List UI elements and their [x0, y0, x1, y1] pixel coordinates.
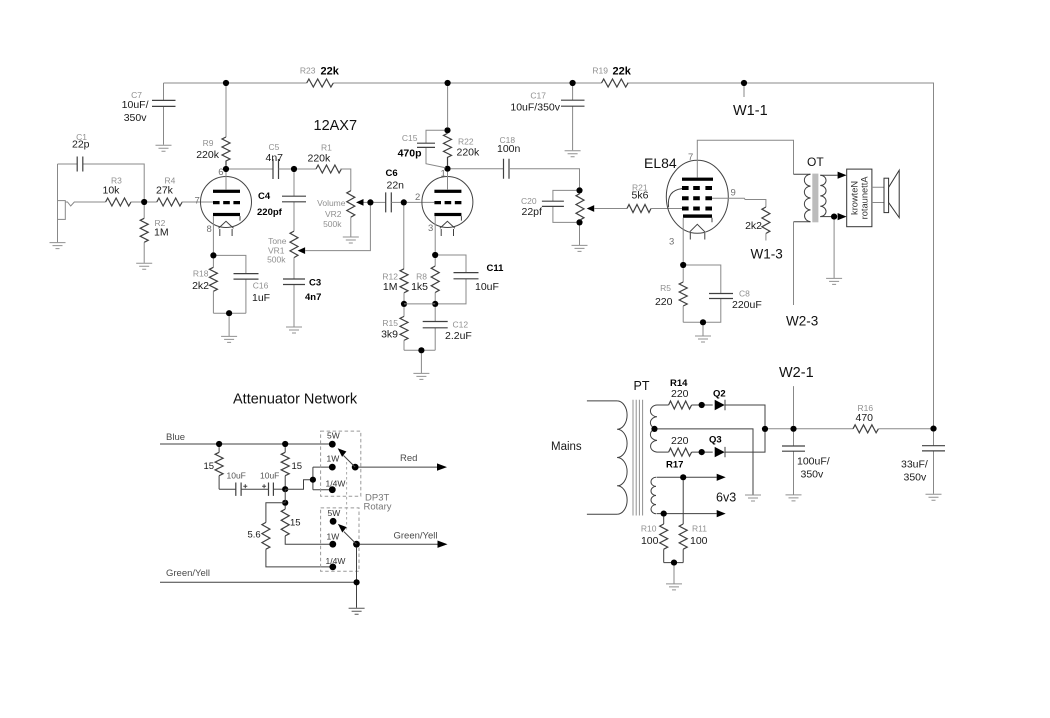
ground C7	[156, 145, 172, 151]
svg-text:220: 220	[671, 388, 689, 400]
ground C20	[572, 245, 588, 251]
capacitor C4 220pf	[257, 172, 306, 231]
resistor R19 22k	[592, 66, 631, 88]
ground heater	[666, 584, 682, 590]
svg-text:6v3: 6v3	[716, 491, 736, 505]
node 1 anode V1b	[444, 166, 450, 172]
transformer PT HT winding	[650, 405, 657, 452]
wire rail to R22	[447, 86, 449, 127]
resistor R9 220k	[196, 86, 230, 166]
svg-text:22n: 22n	[387, 180, 405, 192]
capacitor C5 4n7	[229, 142, 291, 179]
svg-text:10k: 10k	[103, 185, 121, 197]
resistor R3 10k	[103, 176, 142, 207]
svg-text:2k2: 2k2	[745, 220, 762, 232]
svg-text:W1-3: W1-3	[751, 247, 783, 262]
transformer PT core	[633, 400, 643, 516]
wire GreenYell bottom line	[160, 547, 357, 608]
svg-text:100uF/: 100uF/	[797, 456, 830, 468]
node ground V1b bus	[418, 347, 424, 353]
svg-text:rotaunettA: rotaunettA	[859, 176, 869, 220]
potentiometer VR2 Volume 500k	[317, 191, 367, 237]
ground C17	[565, 151, 581, 157]
wire cathode bus V1b	[404, 303, 435, 305]
node R22-C15 top	[444, 127, 450, 133]
node blue-R15b	[282, 441, 288, 447]
link rotary dashed	[346, 462, 348, 530]
svg-text:220pf: 220pf	[257, 207, 283, 218]
wire to ground	[673, 566, 675, 584]
wire heater top	[657, 476, 717, 478]
svg-text:PT: PT	[634, 379, 650, 393]
node OT secondary bottom	[831, 214, 837, 220]
node R8-C12	[432, 301, 438, 307]
node 100uF	[790, 426, 796, 432]
node cathode V2	[680, 262, 686, 268]
ground V1b cathode	[413, 373, 429, 379]
wire pin 9 to 2k2	[712, 198, 766, 207]
svg-text:470: 470	[856, 412, 874, 424]
svg-text:5W: 5W	[327, 431, 340, 441]
svg-text:C20: C20	[521, 196, 537, 206]
svg-text:R12: R12	[382, 272, 398, 282]
svg-text:Green/Yell: Green/Yell	[394, 531, 438, 542]
capacitor C15 470p	[398, 130, 446, 167]
ground R5-C8	[695, 336, 711, 342]
wire Red output	[358, 466, 437, 468]
capacitor C12 2.2uF	[423, 307, 472, 350]
svg-text:1M: 1M	[383, 281, 398, 293]
switch SW1 wiper	[338, 448, 356, 467]
ground 33uF	[926, 494, 942, 500]
svg-text:7: 7	[195, 196, 200, 207]
node cap junction	[282, 486, 288, 492]
capacitor 10uF second	[260, 471, 285, 496]
ground jack	[50, 243, 66, 249]
resistor R4 27k	[147, 176, 214, 207]
svg-text:8: 8	[207, 224, 212, 235]
resistor 15 first	[204, 447, 224, 489]
wire W1-1 stub	[743, 86, 745, 97]
node rail-C17	[570, 80, 576, 86]
svg-text:33uF/: 33uF/	[901, 459, 928, 471]
tube V2 heater	[690, 224, 705, 239]
svg-text:4n7: 4n7	[266, 152, 284, 164]
node ground R5-C8	[700, 319, 706, 325]
svg-text:22pf: 22pf	[522, 206, 543, 218]
svg-text:Rotary: Rotary	[364, 502, 392, 513]
resistor R21 5k6	[594, 183, 682, 213]
resistor R15 3k9	[381, 307, 408, 350]
svg-text:4n7: 4n7	[305, 292, 321, 303]
svg-text:R11: R11	[692, 524, 707, 534]
svg-text:R9: R9	[203, 138, 214, 148]
ground attenuator	[349, 608, 365, 614]
input jack J1	[58, 164, 106, 242]
wire caps to switch1	[285, 467, 329, 490]
svg-text:470p: 470p	[398, 148, 422, 160]
svg-text:10uF: 10uF	[475, 281, 499, 293]
svg-text:22p: 22p	[72, 139, 90, 151]
node C20 bottom	[576, 219, 582, 225]
tube V1a grid	[213, 201, 240, 204]
resistor R12 1M	[382, 206, 408, 304]
svg-text:Q2: Q2	[713, 389, 726, 400]
resistor 15 second	[281, 447, 302, 489]
tube V1b grid	[434, 201, 461, 204]
resistor R2 1M	[140, 205, 168, 263]
node heater bottom	[661, 510, 667, 516]
resistor R-220 lower	[657, 435, 713, 456]
svg-text:15: 15	[292, 461, 303, 472]
resistor R8 1k5	[411, 258, 439, 301]
node switch1 T	[310, 477, 316, 483]
svg-text:C12: C12	[453, 320, 469, 330]
svg-text:15: 15	[290, 518, 301, 529]
resistor R14 220	[657, 378, 713, 409]
wire V1b anode to node 1	[447, 172, 449, 190]
svg-text:22k: 22k	[321, 66, 340, 78]
ground R18-C16	[221, 336, 237, 342]
svg-text:R15: R15	[382, 318, 398, 328]
node C5-R1-C4	[291, 166, 297, 172]
svg-text:1k5: 1k5	[411, 281, 428, 293]
node B+ rectifier	[762, 426, 768, 432]
wire cap junction down	[284, 489, 286, 503]
svg-text:350v: 350v	[124, 112, 148, 124]
wire to ground	[420, 353, 422, 373]
node cathode V1b	[432, 252, 438, 258]
wire arrow top lead	[837, 174, 838, 176]
wire to ground	[702, 325, 704, 335]
resistor 5.6	[248, 503, 330, 567]
svg-text:3: 3	[669, 237, 674, 248]
switch SW1 quarterW terminal	[329, 486, 336, 493]
svg-text:R22: R22	[458, 137, 474, 147]
svg-text:Blue: Blue	[166, 432, 185, 443]
wire OT secondary ground stem	[833, 220, 835, 278]
wire bottom bus	[404, 349, 435, 351]
svg-text:7: 7	[688, 152, 693, 163]
tube V1b cathode	[434, 213, 461, 221]
wire V1a cathode down	[212, 216, 214, 252]
capacitor C6 22n	[374, 168, 405, 212]
svg-text:C5: C5	[269, 142, 280, 152]
capacitor C16 1uF	[213, 255, 270, 313]
node C20 top	[576, 187, 582, 193]
wire V2 cathode down	[682, 218, 684, 262]
node rail-R22	[445, 80, 451, 86]
tube V1a cathode	[213, 213, 240, 221]
node ground R18-C16	[226, 310, 232, 316]
node 5.6 junction	[282, 500, 288, 506]
diode Q2	[713, 389, 765, 426]
switch SW2 1W terminal	[329, 541, 336, 548]
wire W2-1 stub	[793, 386, 795, 426]
ground VR2	[343, 237, 359, 243]
resistor R22 220k	[444, 133, 481, 165]
svg-text:C17: C17	[530, 91, 546, 101]
capacitor 33uF/350v	[901, 432, 945, 494]
svg-text:22k: 22k	[613, 66, 632, 78]
tube V2 EL84 envelope	[666, 160, 728, 233]
svg-text:220k: 220k	[457, 147, 481, 159]
wire GreenYell output	[360, 543, 438, 545]
svg-text:EL84: EL84	[644, 155, 677, 171]
svg-text:OT: OT	[807, 155, 824, 169]
node grid V1a input	[141, 199, 147, 205]
potentiometer VR1 Tone 500k	[267, 206, 370, 265]
svg-text:5k6: 5k6	[632, 190, 649, 202]
svg-text:Mains: Mains	[551, 441, 582, 453]
capacitor C17	[510, 86, 584, 150]
node rail-R9	[223, 80, 229, 86]
switch SW2 wiper	[338, 524, 357, 544]
svg-text:R19: R19	[592, 66, 608, 76]
diode Q3	[709, 432, 765, 457]
node W1-1	[741, 80, 747, 86]
svg-text:R10: R10	[641, 524, 657, 534]
svg-text:krowteN: krowteN	[849, 181, 859, 215]
resistor R11 100	[679, 480, 707, 562]
switch SW1 pole	[352, 464, 359, 471]
svg-text:1/4W: 1/4W	[326, 556, 346, 566]
capacitor C3 4n7	[283, 258, 321, 327]
svg-text:C4: C4	[258, 191, 271, 202]
wire grid V1b	[407, 201, 434, 203]
svg-text:100n: 100n	[497, 143, 521, 155]
wire heater resistors bus	[664, 562, 684, 564]
wire W2-3	[793, 222, 795, 305]
node grid V1b	[401, 199, 407, 205]
svg-text:100: 100	[690, 535, 708, 547]
svg-text:Red: Red	[400, 453, 417, 464]
svg-text:5W: 5W	[328, 508, 341, 518]
svg-text:1W: 1W	[327, 454, 340, 464]
svg-text:C8: C8	[739, 289, 750, 299]
tube V2 grid hook	[668, 189, 682, 208]
wire heater bottom	[657, 513, 717, 515]
svg-text:10uF: 10uF	[260, 471, 279, 481]
tube V1a anode	[213, 190, 240, 193]
capacitor C7	[122, 83, 176, 145]
node 6	[223, 166, 229, 172]
svg-text:R5: R5	[660, 283, 671, 293]
capacitor C8 220uF	[683, 265, 762, 322]
svg-text:Volume: Volume	[317, 198, 346, 208]
svg-text:W2-1: W2-1	[779, 365, 814, 381]
svg-text:C6: C6	[386, 168, 398, 179]
svg-text:C11: C11	[487, 263, 505, 274]
svg-text:12AX7: 12AX7	[314, 118, 358, 134]
transformer OT core	[812, 174, 818, 223]
transformer OT secondary	[820, 175, 836, 216]
ground OT secondary	[826, 278, 842, 284]
svg-text:3k9: 3k9	[381, 329, 398, 341]
arrow OT secondary top	[838, 172, 847, 179]
svg-text:220: 220	[655, 296, 673, 308]
switch SW2 pole	[353, 541, 360, 548]
ground R2	[136, 263, 152, 269]
svg-text:W1-1: W1-1	[733, 103, 768, 119]
svg-text:10uF/: 10uF/	[122, 99, 149, 111]
switch SW2 5W terminal	[330, 518, 337, 525]
capacitor C18 100n	[451, 135, 580, 187]
ground 100uF	[786, 495, 802, 501]
svg-text:R1: R1	[321, 143, 332, 153]
svg-text:R17: R17	[666, 460, 683, 471]
arrow GreenYell	[438, 541, 448, 548]
node heater top	[680, 474, 686, 480]
speaker SPK	[884, 170, 899, 217]
svg-text:Q3: Q3	[709, 435, 722, 446]
tube V2 cathode	[683, 214, 712, 222]
switch SW2 box	[321, 508, 359, 571]
svg-text:350v: 350v	[801, 469, 825, 481]
svg-text:C3: C3	[309, 278, 321, 289]
resistor R1 220k	[297, 143, 351, 191]
wire box to speaker	[872, 187, 884, 202]
svg-text:C15: C15	[402, 133, 418, 143]
svg-text:Green/Yell: Green/Yell	[166, 568, 210, 579]
wire center tap	[658, 429, 753, 495]
tube V1b heater	[440, 221, 455, 236]
block attenuator network	[847, 169, 872, 227]
svg-text:500k: 500k	[267, 255, 286, 265]
svg-text:R18: R18	[193, 269, 209, 279]
wire B+ top rail	[164, 83, 934, 429]
capacitor 100uF/350v	[782, 432, 830, 495]
svg-text:10uF/350v: 10uF/350v	[510, 102, 560, 114]
wire C20 ground stem	[579, 226, 581, 246]
node volume wiper	[367, 199, 373, 205]
wire B+ line	[768, 428, 853, 430]
arrow Red	[437, 463, 447, 470]
resistor R23 22k	[300, 66, 340, 88]
node R12-R15	[401, 301, 407, 307]
resistor 2k2	[745, 207, 770, 241]
node blue-R15a	[216, 441, 222, 447]
tube V1a (12AX7 a) envelope	[201, 177, 252, 228]
capacitor C1 22p	[58, 132, 145, 199]
svg-text:Attenuator Network: Attenuator Network	[233, 392, 358, 408]
wire V1a anode to node 6	[225, 169, 227, 190]
switch SW1 1W terminal	[329, 464, 336, 471]
svg-text:VR2: VR2	[325, 209, 342, 219]
svg-text:500k: 500k	[323, 219, 342, 229]
svg-text:220k: 220k	[308, 153, 332, 165]
node GreenYell ground	[354, 579, 360, 585]
svg-text:R8: R8	[416, 272, 427, 282]
node heater ground	[671, 560, 677, 566]
capacitor 10uF first	[219, 471, 268, 496]
switch SW2 quarterW terminal	[329, 564, 336, 571]
node 33uF	[930, 426, 936, 432]
svg-text:350v: 350v	[904, 472, 928, 484]
transformer OT primary	[794, 174, 811, 222]
tube V1b anode	[434, 190, 461, 193]
svg-text:1/4W: 1/4W	[326, 478, 346, 488]
svg-text:100: 100	[641, 535, 659, 547]
node R14-Q2	[699, 402, 705, 408]
svg-text:5.6: 5.6	[248, 530, 261, 541]
svg-text:10uF: 10uF	[227, 471, 246, 481]
capacitor C20 22pf	[521, 190, 576, 222]
svg-text:C16: C16	[253, 281, 269, 291]
node R-Q3	[699, 449, 705, 455]
tube V2 grid rows	[682, 188, 712, 209]
svg-text:9: 9	[731, 188, 736, 199]
svg-text:2.2uF: 2.2uF	[445, 330, 472, 342]
svg-text:6: 6	[218, 167, 223, 178]
svg-text:1W: 1W	[327, 532, 340, 542]
arrow OT secondary bottom	[838, 213, 847, 220]
resistor R16 470	[853, 403, 930, 433]
transformer PT primary	[587, 401, 627, 514]
capacitor C11 10uF	[438, 255, 504, 304]
wire Blue line	[160, 443, 329, 445]
resistor R18 2k2	[192, 259, 217, 314]
svg-text:15: 15	[204, 461, 215, 472]
wire to ground	[228, 316, 230, 336]
switch SW1 5W terminal	[329, 441, 336, 448]
svg-text:Tone: Tone	[268, 236, 287, 246]
svg-text:2: 2	[415, 192, 420, 203]
tube V1b (12AX7 b) envelope	[422, 177, 473, 228]
wire V2 anode to OT	[697, 140, 793, 177]
wire V1b cathode down	[434, 216, 436, 252]
node cathode V1a	[210, 252, 216, 258]
resistor R5 220	[655, 268, 687, 322]
svg-text:W2-3: W2-3	[786, 314, 818, 329]
potentiometer presence pot	[576, 194, 594, 220]
arrow heater top	[717, 474, 726, 481]
svg-text:3: 3	[428, 223, 433, 234]
svg-text:220: 220	[671, 435, 689, 447]
svg-text:1M: 1M	[154, 227, 169, 239]
tube V2 anode	[682, 178, 713, 181]
transformer PT heater winding	[651, 477, 656, 513]
svg-text:1uF: 1uF	[252, 292, 270, 304]
ground center tap	[745, 495, 761, 501]
arrow heater bottom	[717, 510, 726, 517]
svg-text:220k: 220k	[196, 149, 220, 161]
ground C3	[286, 327, 302, 333]
svg-text:R23: R23	[300, 66, 316, 76]
tube V1a heater	[219, 221, 234, 236]
switch SW1 box DP3T	[321, 431, 361, 496]
resistor 15 third	[281, 506, 330, 544]
resistor R10 100	[641, 517, 668, 563]
svg-text:27k: 27k	[156, 185, 174, 197]
svg-text:2k2: 2k2	[192, 280, 209, 292]
node PT center tap	[651, 426, 657, 432]
svg-text:220uF: 220uF	[732, 299, 762, 311]
